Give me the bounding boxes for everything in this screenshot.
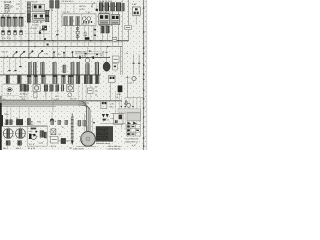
wire: right pair vertical b <box>138 54 140 75</box>
wire: bus E infill b <box>0 103 85 105</box>
switch S4 arrow glyph <box>29 51 33 58</box>
svg-text:st 12: st 12 <box>132 144 136 147</box>
node: left stub terminals <box>8 66 21 71</box>
gauge G2 dial <box>87 17 91 21</box>
headlamp E6 left round <box>3 129 13 139</box>
gauge G8 dial group <box>67 85 74 97</box>
sensor B1 circle-top resistor <box>85 58 90 75</box>
fuse F7 <box>99 3 103 11</box>
relay K1 box <box>33 4 45 12</box>
resistor R15 under bus D <box>34 75 37 83</box>
resistor R6 under bus C <box>41 62 45 74</box>
wire: right drop x127.5 <box>127 76 129 98</box>
sensor B2 dial far-right <box>132 77 136 81</box>
wire: right mid horizontal <box>126 97 144 99</box>
wire: riser x122.5 <box>122 0 124 41</box>
switch S2 arrow glyph <box>13 51 17 57</box>
switch S10 stub glyph <box>72 52 73 58</box>
resistor R9 under bus C <box>71 62 74 74</box>
node: dark dot in distributor box <box>35 131 37 133</box>
label: table cell specks <box>132 126 139 135</box>
wire: cluster box divider <box>80 14 82 26</box>
capacitor C1 pair above bus <box>101 26 109 41</box>
svg-text:a 12 7: a 12 7 <box>128 83 135 85</box>
switch S7 glyph top <box>92 2 95 8</box>
wire: outer right faint vertical <box>146 0 148 150</box>
svg-text:6: 6 <box>109 6 110 8</box>
wire: extra band segment above C <box>75 51 100 53</box>
svg-text:30 51: 30 51 <box>80 6 86 8</box>
svg-text:15 31b: 15 31b <box>32 25 39 27</box>
fuse F4 <box>19 17 23 26</box>
wire: fuse drops from feed bus <box>3 14 21 17</box>
resistor R27 mid column <box>45 10 49 22</box>
gauge G11 bar <box>56 85 59 92</box>
wire: fuse F5 drop <box>51 8 53 41</box>
resistor R24 below headlamp E6 <box>6 141 10 146</box>
right margin blank strip <box>147 0 150 150</box>
gauge G12 bar <box>61 85 64 91</box>
relay K6 outline right <box>108 75 115 82</box>
svg-text:⊥ ⊥: ⊥ ⊥ <box>3 54 9 58</box>
node: splice square x40 <box>39 32 41 34</box>
horn H1 <box>7 88 12 92</box>
svg-text:j 15 r4 30: j 15 r4 30 <box>77 55 87 57</box>
svg-text:b2 16: b2 16 <box>80 9 86 11</box>
gray box right column <box>127 113 141 121</box>
svg-text:56b 2: 56b 2 <box>16 148 22 150</box>
node: arrow glyph right b <box>133 122 137 125</box>
wire: verticals mid-right gauges <box>78 84 90 101</box>
node: tick inside connector X5 <box>114 66 116 68</box>
wire: relay K5 drop <box>135 15 137 24</box>
wire: bundle corner inner <box>78 105 90 131</box>
left margin gray bar tail <box>0 96 2 103</box>
wire: vertical x95 with ticks <box>94 26 96 41</box>
svg-text:J1 c 12: J1 c 12 <box>63 12 71 14</box>
connector X4 box on bus C <box>112 56 119 62</box>
fuse F2 <box>7 17 11 26</box>
wire: line under motor <box>76 146 96 148</box>
wire: bus B2 <box>0 46 122 48</box>
lamp E1 <box>2 31 5 35</box>
resistor R19 under bus D <box>68 75 73 83</box>
wire: cluster drops to bus <box>66 26 94 47</box>
wire: bus D <box>0 74 101 76</box>
headlamp E7 left round <box>16 129 26 139</box>
resistor R26 above motor <box>78 120 86 126</box>
node: tick on wire x57 <box>56 34 58 35</box>
svg-text:t5 1 8: t5 1 8 <box>29 143 35 146</box>
resistor R23 under bus D <box>95 75 99 83</box>
capacitor C2 in distributor box <box>40 131 44 138</box>
svg-text:weiss ws wh X: weiss ws wh X <box>96 139 109 141</box>
connector X7 pair <box>87 88 93 93</box>
gauge G7 bar <box>50 85 53 92</box>
wire: cross line under relays <box>25 33 50 35</box>
wire: top-left feed bus <box>0 13 26 15</box>
legend text block <box>96 126 109 141</box>
resistor R22 under bus D <box>89 75 93 83</box>
gauge G1 dial <box>82 17 86 21</box>
switch S6 box with X <box>51 129 56 135</box>
node: G symbol dark blob <box>50 119 57 123</box>
svg-text:30 15: 30 15 <box>51 146 57 148</box>
svg-text:14 60 8: 14 60 8 <box>82 24 90 26</box>
svg-text:53 a 31: 53 a 31 <box>30 28 38 30</box>
switch S9 stub glyph <box>63 52 64 58</box>
wire: mid bus C <box>0 57 110 59</box>
resistor R20 under bus D <box>76 75 80 83</box>
distributor rotor Q1 cluster <box>29 131 37 140</box>
resistor R16 under bus D <box>41 75 45 83</box>
distributor box A2 <box>27 126 47 146</box>
fuse F1 <box>1 17 5 26</box>
wire: bus C upper companion <box>75 53 104 55</box>
svg-text:56a 1: 56a 1 <box>3 148 9 150</box>
blower motor M4 big circle <box>81 132 96 147</box>
wire: right pair vertical a <box>133 54 135 75</box>
svg-text:farbcode wiring: farbcode wiring <box>96 142 111 145</box>
node: arrow glyph right a <box>127 122 131 125</box>
wire: table lines right of M2 <box>101 113 126 123</box>
resistor R25 below headlamp E7 <box>18 141 22 146</box>
resistor R8 short <box>63 65 66 73</box>
wire: relay K6 drop <box>110 82 112 100</box>
gauge G5 dial group <box>33 85 40 98</box>
resistor R12 under bus D <box>6 75 9 83</box>
wire: links bus B2 to C <box>53 47 107 58</box>
fuse F11 narrow <box>122 3 124 11</box>
svg-text:1 2 3 4 5: 1 2 3 4 5 <box>2 15 9 17</box>
node: tick marks on right verticals <box>133 62 141 65</box>
paper speckle tint top half <box>0 0 147 112</box>
relay K5 top right <box>132 7 140 15</box>
resistor R4 under bus C <box>28 62 31 74</box>
instrument cluster box U1 <box>62 14 96 26</box>
wire: drops from bus E to starter row <box>7 107 29 120</box>
node: junction dots on bus B2 <box>34 46 108 47</box>
switch S3 arrow glyph <box>21 51 25 58</box>
resistor R2 in cluster <box>69 17 72 26</box>
wire: crossing vertical x53 <box>52 98 54 112</box>
wire: fuse F6 drop <box>56 8 58 58</box>
svg-text:8: 8 <box>103 6 104 8</box>
svg-text:31 54s: 31 54s <box>102 52 108 54</box>
cable W1 ticked loom <box>71 113 74 140</box>
wire: riser to bundle from G <box>51 112 53 119</box>
motor M2 glyph cluster <box>102 114 110 122</box>
wire: bus E line4 <box>0 106 55 108</box>
wire: verticals to lower table <box>116 92 120 113</box>
wire: bundle corner fill <box>87 107 90 131</box>
relay K7 box lower right <box>114 113 123 124</box>
node: dots on right border <box>143 7 145 147</box>
sensor B3 dial small right <box>125 103 130 107</box>
wire: stubs fuse to lamps <box>3 26 21 30</box>
terminal table bottom right <box>127 125 141 136</box>
wire: short links bus B to B2 <box>3 41 118 47</box>
starter M3 dark cluster <box>16 118 23 125</box>
resistor R3 in cluster <box>76 17 79 26</box>
svg-text:31 q 15: 31 q 15 <box>28 148 36 150</box>
resistor R13 under bus D <box>17 75 21 83</box>
node: bus glyph marks x44-48 <box>44 38 49 45</box>
node: bundle junction dots <box>121 106 134 107</box>
cable W1 arrow end <box>71 140 74 145</box>
svg-text:30 u15: 30 u15 <box>4 1 12 4</box>
fuse F5 top edge <box>50 1 54 9</box>
switch S11 diagonal blade <box>39 26 46 31</box>
connector X6 dark bars <box>20 84 25 91</box>
svg-text:8 8 8 8: 8 8 8 8 <box>2 38 11 40</box>
paper grain speckle <box>0 0 147 150</box>
wire: faint line left mid <box>0 94 19 96</box>
wire: top right drop x128 <box>128 0 130 41</box>
svg-text:4: 4 <box>115 6 116 8</box>
node: dots under drop wires <box>79 122 95 124</box>
relay block K3 <box>99 14 110 25</box>
wire: upper feeder center <box>60 3 97 5</box>
node: dark blob connector right of relays <box>42 26 47 31</box>
fuse F10 <box>116 3 121 11</box>
resistor R7 under bus C <box>53 62 57 74</box>
relay K2 box <box>33 13 46 20</box>
gauge G4 glyph group <box>25 85 28 96</box>
fuse F8 <box>105 3 109 11</box>
svg-text:2 kabel 56 rt sw: 2 kabel 56 rt sw <box>125 140 139 143</box>
lamp E2 <box>8 31 11 35</box>
wire: bus B shadow line <box>0 41 122 43</box>
fuse F3 <box>13 17 17 26</box>
ignition unit A3 glyph <box>58 138 70 143</box>
bus bar shaded band right <box>118 109 140 112</box>
wire: riser to top edge <box>20 0 22 14</box>
left margin black bar <box>0 103 2 150</box>
resistor R18 under bus D <box>62 75 65 83</box>
node: junction dots on bus B <box>28 40 119 42</box>
left margin thick black block <box>0 115 3 126</box>
label: dark blob text in distributor box <box>31 128 37 130</box>
ignition coil T1 box with X <box>5 5 9 9</box>
fuse F9 <box>111 3 115 11</box>
resistor R17 under bus D <box>53 75 57 83</box>
svg-text:+ 200 w 500 mm: + 200 w 500 mm <box>107 148 121 150</box>
fuse F6 top edge <box>56 1 60 9</box>
wire: fuse block drops <box>101 11 118 41</box>
control unit A1 glyphs <box>101 101 107 108</box>
relay block K4 <box>111 15 120 25</box>
connector X8 box <box>50 136 58 143</box>
connector X9 small boxes above cable <box>51 120 68 124</box>
node: arrow glyph above bundle <box>125 100 128 104</box>
switch S1 stack <box>76 26 79 41</box>
resistor R14 under bus D <box>27 75 31 83</box>
svg-text:4 h: 4 h <box>58 54 61 56</box>
gauge G6 glyph <box>44 85 47 97</box>
label: motor spec text rows <box>96 133 102 143</box>
node: dark mark near switch <box>85 37 89 40</box>
node: splice dot right of cluster <box>96 9 99 12</box>
connector strip X1 <box>27 2 30 23</box>
label: table first column dark cells <box>127 125 130 135</box>
wire: stub bus C to motor M1 <box>106 58 108 62</box>
node: tick marks under cluster dials <box>83 21 92 23</box>
wire: component bottoms faint rail <box>2 83 75 85</box>
wire: drops into blower motor <box>84 113 92 131</box>
connector X2 small box <box>125 25 131 29</box>
legend block dark panel <box>96 126 113 141</box>
resistor R5 under bus C <box>33 62 36 74</box>
alternator G10 cluster <box>27 118 34 126</box>
wire: bundle corner mid <box>78 103 88 131</box>
wire: main bus B upper <box>0 40 129 42</box>
svg-text:15 54: 15 54 <box>32 1 38 3</box>
paper background <box>0 0 150 150</box>
paper speckle tint bottom band <box>0 112 147 150</box>
capacitor C3 small bar in distributor box <box>44 132 46 138</box>
resistor R21 under bus D <box>84 75 88 83</box>
wire: bus E line1 <box>0 100 122 102</box>
svg-text:m30 t 561 b: m30 t 561 b <box>73 147 84 150</box>
lamp E5 small dark <box>118 86 122 92</box>
wire: legend underline <box>96 140 114 142</box>
wire: bus corner pair down x120 <box>121 41 123 75</box>
lamp E3 <box>14 31 17 35</box>
svg-text:30 15: 30 15 <box>71 99 77 101</box>
wire: lamps to bus B <box>3 35 21 47</box>
wire: gauge drops to bus E <box>27 91 70 101</box>
wire: right border vertical bus <box>143 0 145 150</box>
connector X3 small <box>112 38 116 42</box>
node: dots on bus C <box>28 57 88 59</box>
svg-text:15 30 x 58 4: 15 30 x 58 4 <box>62 1 72 3</box>
node: dark tick cluster on bus C mid <box>79 50 98 58</box>
wire: bus E line3 <box>0 104 87 106</box>
switch S8 stub glyph <box>53 52 54 58</box>
resistor R1 in cluster <box>64 17 67 26</box>
lamp E4 <box>20 31 23 35</box>
label: inter-fuse marks <box>103 6 116 8</box>
wire: feeder risers <box>66 4 97 14</box>
wire: lower-left header line <box>0 126 47 128</box>
wire: bus E line2 <box>0 102 89 104</box>
svg-text:1K: 1K <box>10 7 13 9</box>
wire: bus E infill a <box>0 101 86 103</box>
wire: bundle corner outer <box>78 101 86 131</box>
resistor R10 under bus C <box>76 62 79 74</box>
wire: connector strip drop <box>28 22 30 57</box>
gauge box G3 outline <box>2 85 25 100</box>
wire: stubs header to headlamps <box>8 127 20 129</box>
wire: left stub pair below C <box>4 58 21 75</box>
connector X5 small outline <box>113 64 118 70</box>
wire: right vertical bundle <box>121 98 141 130</box>
wire: relay drops <box>35 26 44 47</box>
switch S5 arrow glyph <box>39 50 43 57</box>
battery G9 glyph cluster <box>5 120 13 127</box>
motor M1 dark round <box>103 62 110 71</box>
resistor R11 under bus C <box>95 62 99 74</box>
